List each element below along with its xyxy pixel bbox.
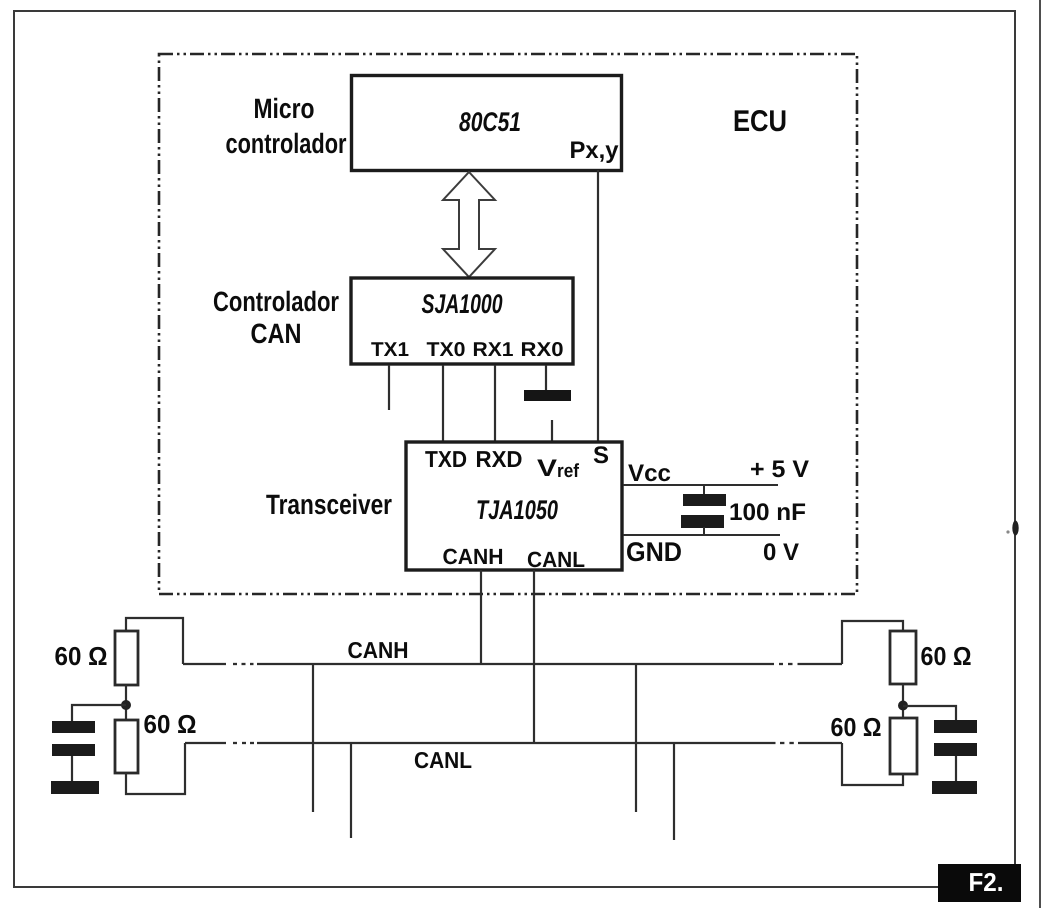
CANL bus dash dots right — [780, 742, 784, 744]
CANL bus dash dots left — [233, 742, 237, 744]
svg-text:CANH: CANH — [348, 637, 409, 663]
wire Px,y to S — [597, 170, 599, 441]
wire RX0 down — [545, 365, 547, 390]
node junction left — [121, 700, 131, 710]
svg-text:V: V — [537, 455, 557, 482]
svg-text:60 Ω: 60 Ω — [55, 641, 108, 671]
microcontroller U1 80C51 box — [352, 76, 622, 171]
ECU dash-dot boundary box — [159, 54, 857, 594]
svg-text:CAN: CAN — [251, 318, 302, 349]
svg-text:TX1: TX1 — [371, 339, 409, 361]
wire CANL pin drop — [533, 570, 535, 743]
svg-text:ECU: ECU — [733, 105, 787, 138]
svg-text:GND: GND — [626, 537, 682, 567]
svg-text:Transceiver: Transceiver — [266, 489, 392, 520]
stub wire CANH left node — [312, 664, 314, 812]
wire Vcc rail — [623, 484, 778, 486]
svg-text:TXD: TXD — [425, 446, 467, 472]
svg-text:100 nF: 100 nF — [729, 499, 806, 526]
svg-text:Px,y: Px,y — [570, 137, 620, 164]
capacitor C1 bottom lead — [703, 527, 705, 535]
svg-text:ref: ref — [557, 461, 580, 482]
svg-text:60 Ω: 60 Ω — [831, 712, 882, 742]
bidirectional data bus arrow — [443, 172, 495, 277]
left termination top wire — [126, 618, 183, 664]
svg-text:CANH: CANH — [443, 544, 504, 569]
wire RX1 to RXD — [494, 365, 496, 441]
CANH bus wire center — [257, 663, 774, 665]
wire right junction to ground — [903, 706, 956, 720]
CAN controller U2 SJA1000 box — [351, 278, 573, 364]
capacitor C1 top plate — [683, 494, 726, 506]
stub wire CANL right node — [673, 743, 675, 840]
ground right connector — [955, 756, 957, 781]
svg-text:Controlador: Controlador — [213, 286, 339, 317]
CANH bus wire left solid — [183, 663, 226, 665]
transceiver U3 TJA1050 box — [406, 442, 622, 570]
stub wire CANL left node — [350, 743, 352, 838]
CANH bus dash dots left — [233, 663, 237, 665]
ground left bar 3 — [51, 781, 99, 794]
svg-text:Vcc: Vcc — [628, 460, 671, 487]
capacitor C1 top lead — [703, 485, 705, 495]
CANL bus wire right solid — [798, 742, 842, 744]
wire left junction to ground — [72, 705, 126, 721]
ground right bar 2 — [934, 743, 977, 756]
svg-text:60 Ω: 60 Ω — [921, 641, 972, 671]
speck — [1006, 530, 1009, 533]
wire TX1 stub — [388, 365, 390, 410]
wire R1 to junction — [125, 685, 127, 720]
stub wire CANH right node — [635, 664, 637, 812]
CANH bus wire right solid — [798, 663, 843, 665]
right termination bottom wire — [842, 743, 903, 785]
svg-text:RXD: RXD — [476, 446, 523, 472]
svg-text:Micro: Micro — [254, 93, 315, 124]
svg-text:S: S — [593, 442, 609, 469]
ground right bar 1 — [934, 720, 977, 733]
ground right bar 3 — [932, 781, 977, 794]
ground left bar 1 — [52, 721, 95, 733]
figure tag F2 box — [938, 864, 1021, 902]
svg-text:RX1: RX1 — [473, 339, 514, 361]
svg-text:TX0: TX0 — [427, 339, 466, 361]
ground left connector — [71, 756, 73, 781]
svg-text:+ 5 V: + 5 V — [750, 456, 809, 483]
ink blot on frame edge — [1012, 521, 1018, 536]
svg-text:80C51: 80C51 — [459, 107, 521, 137]
svg-text:CANL: CANL — [414, 747, 472, 773]
right termination top wire — [842, 621, 903, 664]
wire GND rail — [623, 534, 780, 536]
resistor R4 60 ohm (right bottom) — [890, 718, 917, 774]
svg-text:SJA1000: SJA1000 — [422, 289, 503, 319]
svg-text:CANL: CANL — [527, 547, 585, 572]
svg-text:0 V: 0 V — [763, 539, 799, 566]
RX0 termination bar — [524, 390, 571, 401]
svg-text:TJA1050: TJA1050 — [476, 495, 558, 525]
ground left bar 2 — [52, 744, 95, 756]
wire CANH pin drop — [480, 570, 482, 664]
CANH bus dash dots right — [779, 663, 783, 665]
resistor R2 60 ohm (left bottom) — [115, 720, 138, 773]
svg-text:RX0: RX0 — [521, 339, 564, 361]
svg-text:controlador: controlador — [226, 128, 347, 159]
left termination bottom wire — [126, 743, 185, 794]
CANL bus wire left solid — [185, 742, 226, 744]
page edge artifact line — [1039, 0, 1041, 908]
svg-text:F2.: F2. — [969, 867, 1004, 897]
CANL bus wire center — [257, 742, 776, 744]
resistor R1 60 ohm (left top) — [115, 631, 138, 685]
node junction right — [898, 701, 908, 711]
resistor R3 60 ohm (right top) — [890, 631, 916, 684]
capacitor C1 bottom plate — [681, 515, 724, 528]
wire R3 to junction — [902, 684, 904, 718]
wire Vref stub up — [551, 420, 553, 441]
svg-text:60 Ω: 60 Ω — [144, 709, 197, 739]
wire TX0 to TXD — [442, 365, 444, 441]
